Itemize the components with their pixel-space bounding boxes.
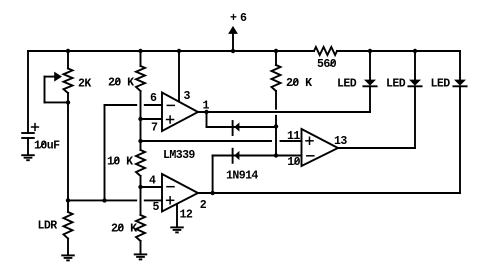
svg-text:1N914: 1N914 [226,170,258,183]
svg-text:7: 7 [151,122,158,135]
svg-text:2K: 2K [78,78,91,91]
svg-text:LDR: LDR [38,220,58,233]
svg-text:20 K: 20 K [286,77,312,90]
svg-text:3: 3 [184,90,191,103]
svg-text:2: 2 [200,199,207,212]
svg-text:6: 6 [150,92,157,105]
svg-text:13: 13 [334,135,347,148]
svg-text:20 K: 20 K [108,77,134,90]
svg-text:1: 1 [203,100,210,113]
svg-text:LED: LED [386,78,406,91]
svg-text:6: 6 [240,12,247,25]
svg-text:10uF: 10uF [34,140,60,153]
svg-text:4: 4 [149,175,156,188]
svg-text:10: 10 [287,156,300,169]
svg-text:560: 560 [317,58,337,71]
svg-text:12: 12 [180,209,193,222]
svg-text:10 K: 10 K [107,156,133,169]
svg-text:LM339: LM339 [163,149,195,162]
svg-text:5: 5 [153,201,160,214]
svg-text:LED: LED [337,78,357,91]
svg-text:LED: LED [431,78,451,91]
svg-text:20 K: 20 K [111,223,137,236]
svg-text:11: 11 [287,130,300,143]
svg-text:+: + [230,12,237,25]
